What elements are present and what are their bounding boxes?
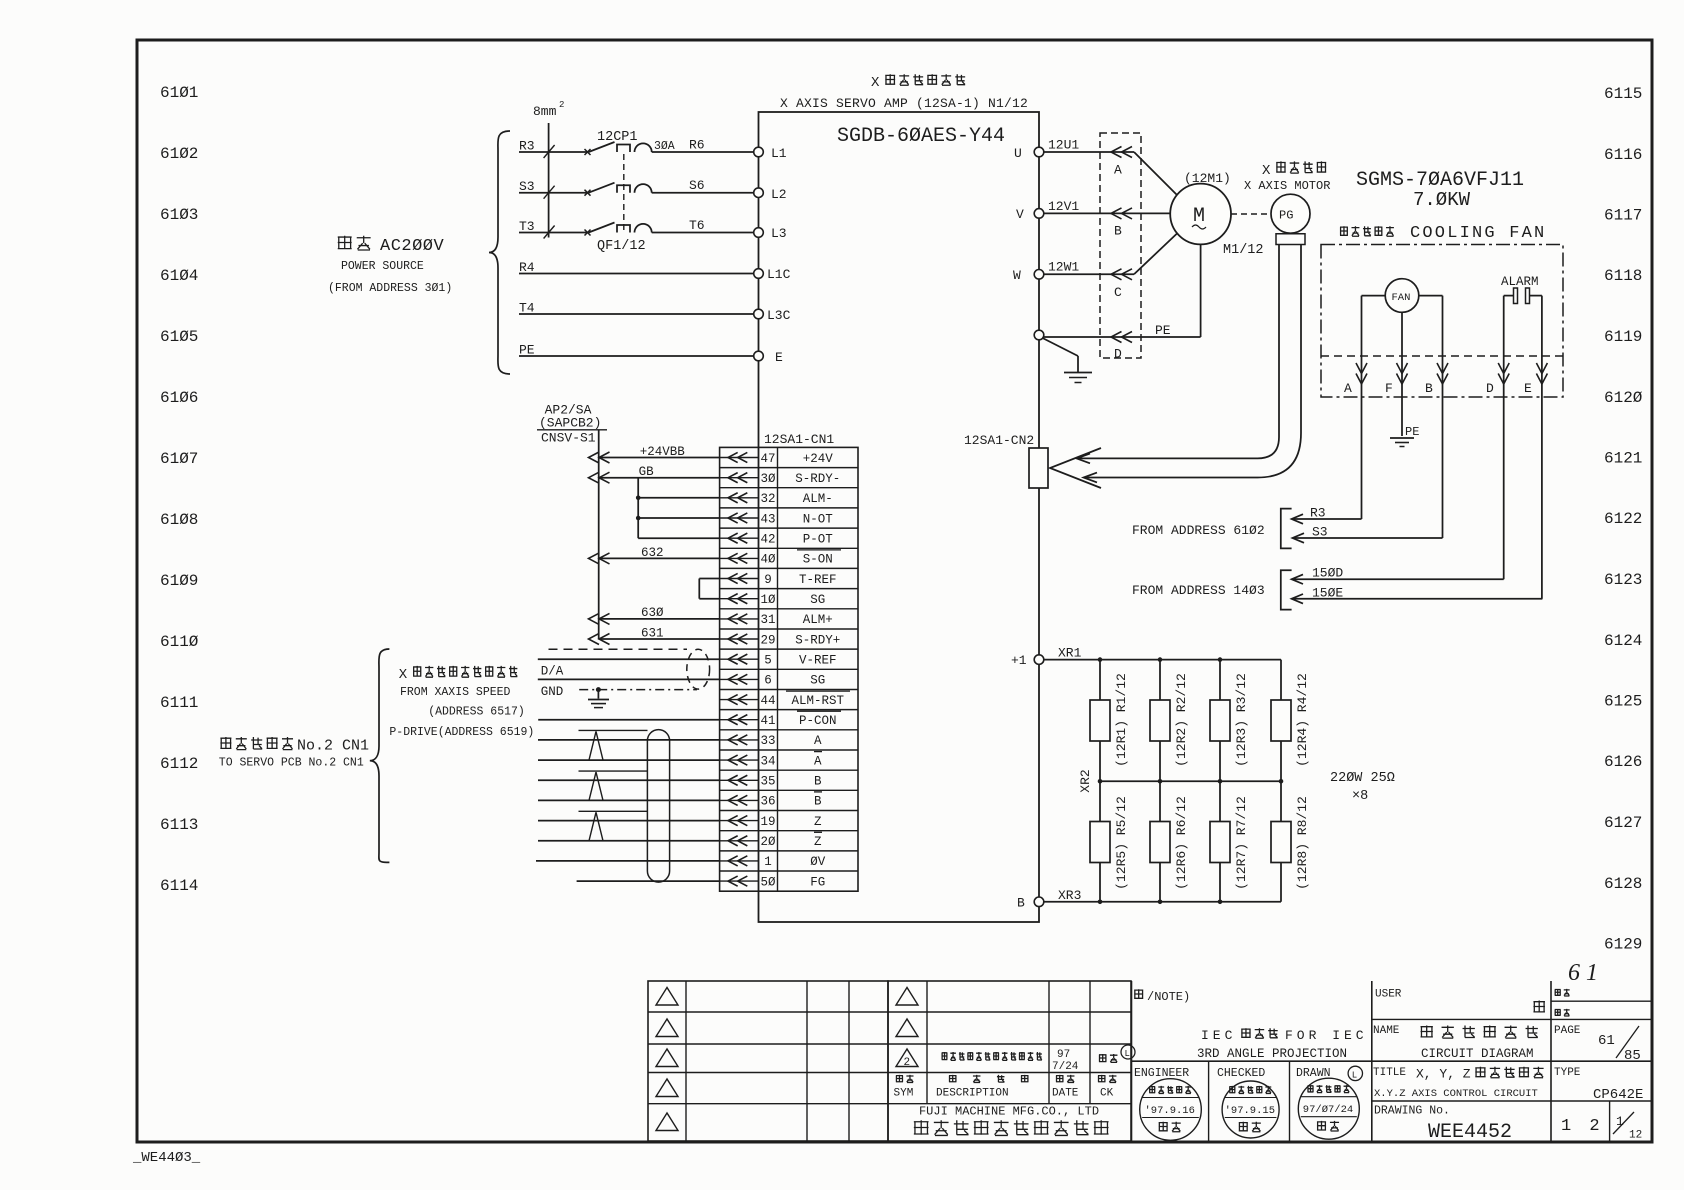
CN1 pin SG row [720, 678, 759, 680]
pair Z wires pins 19-20 [538, 820, 720, 822]
shield drain dash-dot to GND [579, 689, 697, 691]
svg-text:L3: L3 [771, 226, 787, 241]
svg-text:6119: 6119 [1604, 328, 1642, 346]
svg-text:ALM-RST: ALM-RST [792, 694, 845, 708]
svg-text:12CP1: 12CP1 [597, 130, 638, 145]
brace to servo PCB [370, 649, 390, 862]
svg-text:FAN: FAN [1392, 292, 1411, 304]
svg-text:6125: 6125 [1604, 693, 1642, 711]
svg-text:FROM ADDRESS 14Ø3: FROM ADDRESS 14Ø3 [1132, 583, 1265, 598]
pair B wires pins 35-36 [538, 779, 720, 781]
wire S6 to servo amp [652, 192, 754, 194]
CN1 pin FG row [720, 880, 759, 882]
revision table left [648, 981, 888, 1141]
svg-text:'97.9.15: '97.9.15 [1225, 1105, 1275, 1117]
svg-text:CIRCUIT DIAGRAM: CIRCUIT DIAGRAM [1421, 1047, 1534, 1061]
CN1 pin B row [720, 779, 759, 781]
svg-text:P-DRIVE(ADDRESS 6519): P-DRIVE(ADDRESS 6519) [389, 726, 534, 739]
svg-text:(12R3) R3/12: (12R3) R3/12 [1234, 673, 1249, 767]
terminal L1 [754, 147, 764, 157]
breaker QF1/12 pole T3: contact, blade, thermal, magnetic [585, 230, 591, 236]
revision triangle L4 [656, 1079, 678, 1097]
terminal L3C [754, 309, 764, 319]
CN1 pin N-OT row [720, 517, 759, 519]
twist mark pair A [579, 729, 648, 731]
svg-text:AC2ØØV: AC2ØØV [380, 237, 445, 256]
svg-text:CHECKED: CHECKED [1217, 1067, 1265, 1080]
svg-text:C: C [1114, 285, 1122, 300]
circled L mark revision [1121, 1045, 1135, 1059]
terminal L2 [754, 188, 764, 198]
revision triangle 2 with mark [896, 1049, 918, 1067]
svg-text:36: 36 [760, 795, 775, 809]
svg-text:6118: 6118 [1604, 267, 1642, 285]
resistor column wire x=1160 [1159, 660, 1161, 902]
wire T6 to servo amp [652, 232, 754, 234]
svg-text:USER: USER [1375, 989, 1402, 1001]
svg-text:L1C: L1C [767, 267, 791, 282]
svg-text:ENGINEER: ENGINEER [1134, 1067, 1189, 1080]
pair A wires pins 33-34 [538, 739, 720, 741]
svg-text:22ØW 25Ω: 22ØW 25Ω [1330, 771, 1395, 786]
svg-text:L: L [1125, 1049, 1130, 1059]
svg-text:CK: CK [1100, 1088, 1114, 1100]
breaker QF1/12 pole S3: contact, blade, thermal, magnetic [585, 190, 591, 196]
CN2 cable arrowhead [1050, 448, 1101, 488]
svg-text:SG: SG [810, 593, 825, 607]
breaker QF1/12 pole R3: contact, blade, thermal, magnetic [585, 149, 591, 155]
svg-text:6121: 6121 [1604, 450, 1642, 468]
svg-text:X: X [1262, 163, 1271, 179]
svg-text:B: B [814, 775, 822, 789]
svg-text:N-OT: N-OT [803, 512, 834, 526]
CN1 pin Z row [720, 820, 759, 822]
wire V-REF pin5 [538, 658, 720, 660]
resistor column wire x=1281 [1280, 660, 1282, 902]
PG cable inner conductor [1078, 245, 1279, 459]
svg-text:6 1: 6 1 [1568, 960, 1598, 986]
CN1 pin A row [720, 739, 759, 741]
CN1 pin T-REF row [720, 578, 759, 580]
twist mark pair B [579, 770, 648, 772]
stamp engineer (adachi '97.9.16) [1140, 1079, 1202, 1141]
CN1 pin Z row [720, 840, 759, 842]
wire P-CON pin41 [538, 719, 719, 721]
fan terminal strip dashed line [1321, 355, 1563, 357]
phase bus vertical line [548, 123, 550, 238]
svg-text:1: 1 [764, 855, 772, 869]
svg-text:(12R8) R8/12: (12R8) R8/12 [1295, 796, 1310, 890]
svg-text:2: 2 [559, 100, 564, 110]
terminal L3 [754, 228, 764, 238]
svg-text:D: D [1486, 381, 1494, 396]
svg-text:×8: ×8 [1352, 789, 1368, 804]
svg-text:(12R6) R6/12: (12R6) R6/12 [1174, 796, 1189, 890]
svg-text:9: 9 [764, 573, 772, 587]
svg-text:61Ø1: 61Ø1 [160, 84, 198, 102]
CN1 pin S-RDY+ row [720, 638, 759, 640]
CN1 pin ALM- row [720, 497, 759, 499]
revision row 2 person (japanese) [1099, 1054, 1118, 1062]
svg-text:TO SERVO PCB No.2 CN1: TO SERVO PCB No.2 CN1 [219, 757, 364, 770]
svg-text:V-REF: V-REF [799, 654, 837, 668]
svg-text:GND: GND [541, 685, 564, 699]
svg-text:ALARM: ALARM [1501, 275, 1539, 289]
svg-text:TYPE: TYPE [1554, 1067, 1581, 1079]
svg-text:61: 61 [1598, 1033, 1615, 1049]
svg-text:S-RDY-: S-RDY- [795, 472, 840, 486]
terminal V [1034, 209, 1044, 219]
label cooling fan (japanese) [1340, 226, 1394, 236]
svg-text:XR3: XR3 [1058, 888, 1081, 903]
fan pin A [1361, 296, 1363, 519]
svg-text:L2: L2 [771, 187, 787, 202]
CN1 pin ALM+ row [720, 618, 759, 620]
svg-text:X, Y, Z: X, Y, Z [1416, 1067, 1471, 1082]
svg-text:X: X [399, 667, 408, 683]
svg-text:XR1: XR1 [1058, 646, 1082, 661]
svg-text:(12R7) R7/12: (12R7) R7/12 [1234, 796, 1249, 890]
wire pin42 [638, 537, 719, 539]
name denki kairo senzu (japanese) [1421, 1026, 1538, 1039]
svg-text:L: L [1352, 1071, 1357, 1081]
svg-text:42: 42 [760, 533, 775, 547]
svg-text:FG: FG [810, 875, 825, 889]
svg-text:PE: PE [1405, 425, 1419, 439]
svg-text:PAGE: PAGE [1554, 1025, 1581, 1037]
svg-text:A: A [1344, 381, 1352, 396]
svg-text:W: W [1013, 268, 1021, 283]
fan leg wires [1362, 295, 1386, 297]
signal ground symbol [597, 690, 599, 699]
revision triangle L2 [656, 1019, 678, 1037]
svg-text:(12R1) R1/12: (12R1) R1/12 [1114, 673, 1129, 767]
CN1 pin S-ON row [720, 557, 759, 559]
terminal W [1034, 270, 1044, 280]
bus XR1 [1044, 659, 1281, 661]
svg-text:PG: PG [1279, 209, 1293, 223]
svg-text:4Ø: 4Ø [760, 553, 776, 567]
labels bunban seiban [1555, 989, 1570, 996]
svg-text:6114: 6114 [160, 877, 198, 895]
svg-text:L1: L1 [771, 146, 787, 161]
revision triangle L1 [656, 988, 678, 1006]
svg-text:CNSV-S1: CNSV-S1 [541, 431, 596, 446]
svg-text:61Ø6: 61Ø6 [160, 389, 198, 407]
svg-text:DRAWING No.: DRAWING No. [1374, 1105, 1450, 1118]
CN1 pin SG row [720, 598, 759, 600]
CN1 pin P-OT row [720, 537, 759, 539]
resistor R7/12 [1210, 822, 1230, 863]
jumper pins 9-10 [698, 579, 700, 599]
terminal PE out [1034, 330, 1044, 340]
fan motor FAN [1385, 279, 1419, 313]
CN1 pin +24V row [720, 457, 759, 459]
label servo pcb no.2 CN1 (japanese) [220, 737, 293, 750]
resistor column wire x=1100 [1099, 660, 1101, 902]
svg-text:8mm: 8mm [533, 104, 557, 119]
fan pin D [1503, 296, 1505, 580]
revision triangle L3 [656, 1049, 678, 1067]
company name japanese [914, 1120, 1109, 1135]
svg-text:6116: 6116 [1604, 146, 1642, 164]
svg-text:FOR IEC: FOR IEC [1285, 1028, 1368, 1043]
svg-text:S-RDY+: S-RDY+ [795, 633, 840, 647]
svg-text:6126: 6126 [1604, 753, 1642, 771]
svg-text:6111: 6111 [160, 694, 198, 712]
svg-text:Z: Z [814, 815, 822, 829]
svg-text:7.ØKW: 7.ØKW [1413, 189, 1471, 211]
svg-text:3Ø: 3Ø [760, 472, 776, 486]
svg-text:T6: T6 [689, 218, 705, 233]
svg-text:(SAPCB2): (SAPCB2) [539, 416, 601, 431]
svg-text:47: 47 [760, 452, 775, 466]
svg-text:'97.9.16: '97.9.16 [1145, 1105, 1195, 1117]
svg-text:ALM-: ALM- [803, 492, 833, 506]
CN1 pin 0V row [720, 860, 759, 862]
svg-text:L3C: L3C [767, 308, 791, 323]
svg-text:/NOTE): /NOTE) [1147, 990, 1190, 1004]
svg-text:7/24: 7/24 [1052, 1061, 1079, 1073]
svg-text:29: 29 [760, 633, 775, 647]
svg-text:A: A [814, 734, 822, 748]
svg-text:12SA1-CN2: 12SA1-CN2 [964, 433, 1034, 448]
svg-text:3ØA: 3ØA [654, 140, 675, 153]
svg-text:(12R2) R2/12: (12R2) R2/12 [1174, 673, 1189, 767]
svg-text:X AXIS MOTOR: X AXIS MOTOR [1244, 179, 1330, 193]
CNSV-S1 stub line [598, 430, 600, 639]
svg-text:X: X [871, 75, 880, 91]
svg-text:(12R5) R5/12: (12R5) R5/12 [1114, 796, 1129, 890]
svg-text:IEC: IEC [1201, 1028, 1236, 1043]
resistor R4/12 [1271, 700, 1291, 741]
svg-text:X.Y.Z AXIS CONTROL CIRCUIT: X.Y.Z AXIS CONTROL CIRCUIT [1374, 1088, 1538, 1100]
revision header CK (tanto) [1098, 1075, 1117, 1083]
svg-text:B: B [814, 795, 822, 809]
svg-text:44: 44 [760, 694, 775, 708]
breaker gang dashed link [623, 154, 625, 231]
svg-text:FUJI MACHINE MFG.CO., LTD: FUJI MACHINE MFG.CO., LTD [919, 1105, 1099, 1119]
motor connector dashed box [1100, 133, 1141, 358]
terminal U [1034, 147, 1044, 157]
svg-text:12V1: 12V1 [1048, 199, 1079, 214]
svg-text:(ADDRESS 6517): (ADDRESS 6517) [428, 706, 525, 719]
svg-text:FROM ADDRESS 61Ø2: FROM ADDRESS 61Ø2 [1132, 523, 1265, 538]
terminal E [754, 351, 764, 361]
svg-text:6122: 6122 [1604, 510, 1642, 528]
revision header SYM [896, 1075, 914, 1083]
GB common vertical [637, 478, 639, 539]
cooling fan unit dash-dot box [1321, 245, 1563, 398]
svg-text:ALM+: ALM+ [803, 613, 833, 627]
svg-text:6112: 6112 [160, 755, 198, 773]
svg-text:No.2 CN1: No.2 CN1 [297, 738, 369, 755]
svg-text:19: 19 [760, 815, 775, 829]
svg-text:X AXIS SERVO AMP (12SA-1) N1/: X AXIS SERVO AMP (12SA-1) N1/12 [780, 96, 1028, 111]
CN1 pin P-CON row [720, 719, 759, 721]
junction dots XR1 [1098, 657, 1103, 662]
servo amplifier U1 12SA-1 box [759, 112, 1040, 922]
phase slash mark S3 [544, 186, 555, 199]
svg-text:(FROM ADDRESS 3Ø1): (FROM ADDRESS 3Ø1) [328, 282, 452, 295]
svg-text:DATE: DATE [1052, 1088, 1079, 1100]
phase slash mark R3 [544, 145, 555, 158]
svg-text:33: 33 [760, 734, 775, 748]
page cells 12 and 1/12 [1550, 981, 1552, 1142]
right margin line numbers 6115-6129 [1604, 85, 1643, 954]
stamp row dividers [1132, 1060, 1652, 1062]
svg-text:61Ø9: 61Ø9 [160, 572, 198, 590]
svg-text:S-ON: S-ON [803, 553, 833, 567]
bracket from address 1403 [1281, 570, 1292, 609]
connector CN1 table frame [720, 447, 858, 891]
svg-text:SYM: SYM [894, 1088, 914, 1100]
PG cable outer conductor [1084, 245, 1301, 478]
svg-text:6123: 6123 [1604, 571, 1642, 589]
fan pin F [1401, 312, 1403, 436]
svg-text:61Ø8: 61Ø8 [160, 511, 198, 529]
svg-text:6113: 6113 [160, 816, 198, 834]
svg-text:DESCRIPTION: DESCRIPTION [936, 1088, 1009, 1100]
svg-text:XR2: XR2 [1078, 769, 1093, 792]
svg-text:12U1: 12U1 [1048, 138, 1079, 153]
svg-text:12W1: 12W1 [1048, 260, 1079, 275]
revision header DESCRIPTION (teisei kiroku) [949, 1075, 1029, 1083]
svg-text:SG: SG [810, 674, 825, 688]
svg-text:2: 2 [904, 1057, 911, 1069]
svg-text:6124: 6124 [1604, 632, 1642, 650]
resistor R1/12 [1090, 700, 1110, 741]
svg-text:B: B [1114, 224, 1122, 239]
left margin line numbers 6101-6114 [160, 84, 199, 895]
svg-text:5: 5 [764, 654, 772, 668]
revision header DATE (hizuke) [1056, 1075, 1075, 1083]
svg-text:6117: 6117 [1604, 207, 1642, 225]
svg-text:32: 32 [760, 492, 775, 506]
svg-text:61Ø2: 61Ø2 [160, 145, 198, 163]
wire PE to motor [1044, 336, 1134, 338]
CN1 pin S-RDY- row [720, 477, 759, 479]
svg-text:1 2: 1 2 [1561, 1117, 1604, 1136]
svg-text:T-REF: T-REF [799, 573, 837, 587]
CN1 pin ALM-RST row [720, 699, 759, 701]
label DENGEN AC200V [338, 236, 371, 250]
svg-text:POWER SOURCE: POWER SOURCE [341, 260, 424, 273]
resistor R2/12 [1150, 700, 1170, 741]
svg-text:S6: S6 [689, 178, 705, 193]
stamp checked (yamamoto '97.9.15) [1222, 1081, 1279, 1138]
svg-text:61Ø5: 61Ø5 [160, 328, 198, 346]
svg-text:43: 43 [760, 512, 775, 526]
shield dashed line over V-REF [549, 648, 688, 650]
svg-text:5Ø: 5Ø [760, 875, 776, 889]
svg-text:61Ø3: 61Ø3 [160, 206, 198, 224]
svg-text:FROM XAXIS SPEED: FROM XAXIS SPEED [400, 686, 511, 699]
svg-text:97: 97 [1057, 1049, 1070, 1061]
bus XR2 [1100, 780, 1281, 782]
resistor R5/12 [1090, 822, 1110, 863]
fan pin B [1442, 296, 1444, 538]
resistor R8/12 [1271, 822, 1291, 863]
svg-text:611Ø: 611Ø [160, 633, 199, 651]
svg-text:WEE4452: WEE4452 [1428, 1121, 1512, 1144]
svg-text:85: 85 [1624, 1048, 1641, 1064]
svg-text:B: B [1017, 896, 1025, 911]
svg-text:TITLE: TITLE [1373, 1067, 1406, 1079]
svg-text:6129: 6129 [1604, 936, 1642, 954]
svg-text:M1/12: M1/12 [1223, 243, 1264, 258]
svg-text:B: B [1425, 381, 1433, 396]
svg-text:+1: +1 [1011, 653, 1027, 668]
svg-text:97/Ø7/24: 97/Ø7/24 [1303, 1104, 1353, 1116]
phase slash mark T3 [544, 226, 555, 239]
svg-text:V: V [1016, 207, 1024, 222]
svg-text:R6: R6 [689, 138, 705, 153]
svg-text:2Ø: 2Ø [760, 835, 776, 849]
svg-text:12SA1-CN1: 12SA1-CN1 [764, 432, 834, 447]
svg-text:ØV: ØV [810, 855, 826, 869]
svg-text:6128: 6128 [1604, 875, 1642, 893]
svg-text:6115: 6115 [1604, 85, 1642, 103]
wire R6 to servo amp [652, 151, 754, 153]
fan pin E [1541, 296, 1543, 599]
wire pin43 [638, 517, 719, 519]
svg-text:D: D [1114, 347, 1122, 362]
svg-text:P-CON: P-CON [799, 714, 837, 728]
svg-text:12: 12 [1629, 1130, 1642, 1142]
svg-text:31: 31 [760, 613, 775, 627]
resistor column wire x=1220 [1219, 660, 1221, 902]
revision table right [888, 981, 1131, 1141]
svg-text:D/A: D/A [541, 665, 564, 679]
svg-text:NAME: NAME [1373, 1025, 1400, 1037]
note box [1131, 981, 1133, 1142]
svg-text:(12R4) R4/12: (12R4) R4/12 [1295, 673, 1310, 767]
svg-text:35: 35 [760, 775, 775, 789]
revision triangle R2 [896, 1019, 918, 1037]
circled L drawn [1348, 1066, 1362, 1080]
svg-text:61Ø4: 61Ø4 [160, 267, 198, 285]
cable shield oval pins 33-50 [647, 730, 669, 883]
svg-text:6127: 6127 [1604, 814, 1642, 832]
svg-text:COOLING FAN: COOLING FAN [1410, 224, 1546, 243]
svg-text:SGDB-6ØAES-Y44: SGDB-6ØAES-Y44 [837, 125, 1005, 148]
bracket from address 6102 [1281, 509, 1292, 549]
shield twist oval V-REF pair [687, 649, 710, 689]
svg-text:3RD ANGLE PROJECTION: 3RD ANGLE PROJECTION [1197, 1047, 1347, 1061]
svg-text:Z: Z [814, 835, 822, 849]
revision triangle L5 [656, 1113, 678, 1131]
svg-text:41: 41 [760, 714, 775, 728]
svg-text:34: 34 [760, 754, 775, 768]
CN1 pin B row [720, 799, 759, 801]
resistor R6/12 [1150, 822, 1170, 863]
svg-text:61Ø7: 61Ø7 [160, 450, 198, 468]
svg-text:A: A [814, 754, 822, 768]
twist mark pair Z [579, 810, 648, 812]
svg-text:E: E [1524, 381, 1532, 396]
revision row 2 description (japanese) [942, 1052, 1042, 1060]
CN1 pin A row [720, 759, 759, 761]
svg-text:F: F [1385, 381, 1393, 396]
wire 0V pin1 [536, 860, 720, 862]
svg-text:PE: PE [1155, 323, 1171, 338]
wire SG pin6 [538, 678, 720, 680]
stamp drawn (esaka 97/07/24) [1298, 1078, 1359, 1139]
svg-text:A: A [1114, 163, 1122, 178]
encoder PG [1231, 213, 1271, 215]
wire pin32 [638, 497, 719, 499]
